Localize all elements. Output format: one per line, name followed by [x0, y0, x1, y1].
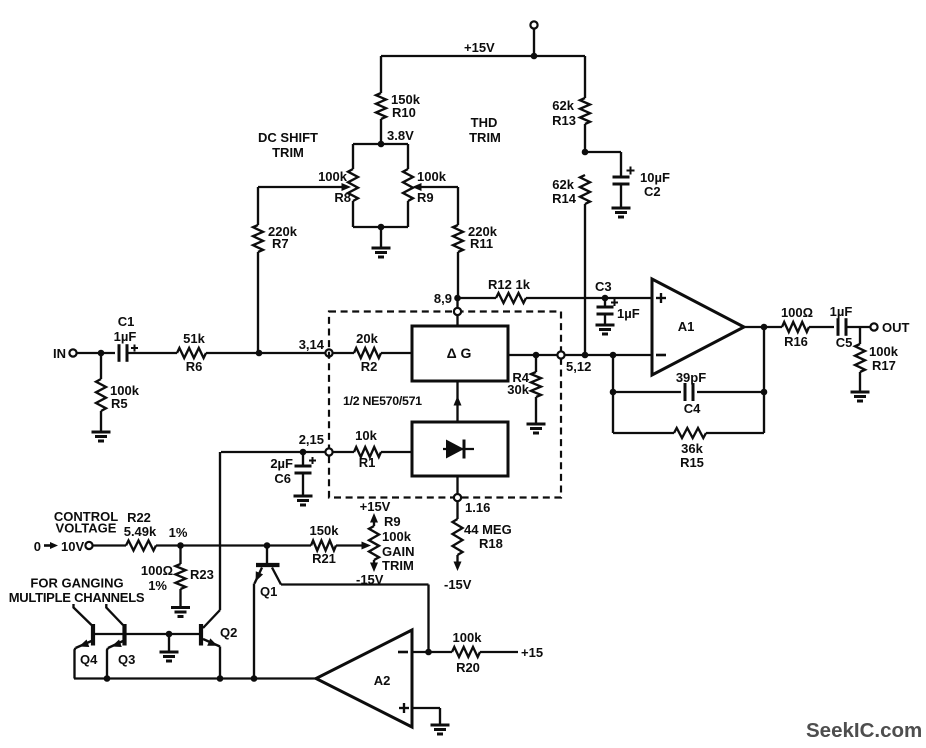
wire R1 to rectifier — [381, 451, 412, 453]
wire A2 plus input — [412, 708, 440, 725]
resistor R18 — [453, 519, 463, 555]
junction R5 tap — [98, 350, 105, 357]
wire trim loop right lower — [407, 201, 409, 227]
svg-text:1µF: 1µF — [114, 329, 137, 344]
node 3,14 — [299, 337, 333, 357]
junction C4 left — [610, 389, 617, 396]
svg-text:R7: R7 — [272, 236, 289, 251]
svg-text:100k: 100k — [382, 529, 412, 544]
R13 labels — [552, 98, 576, 128]
svg-text:GAIN: GAIN — [382, 544, 415, 559]
resistor R21 — [311, 541, 336, 551]
wire A2 output row — [74, 677, 316, 679]
svg-text:C6: C6 — [274, 471, 291, 486]
svg-text:MULTIPLE CHANNELS: MULTIPLE CHANNELS — [9, 590, 145, 605]
wire Q1 collector to A2 — [281, 585, 429, 653]
R9 labels — [417, 169, 447, 205]
svg-text:R21: R21 — [312, 551, 336, 566]
node 2,15 — [299, 432, 333, 456]
resistor R22 — [126, 541, 156, 551]
wire C4 row right — [697, 391, 764, 393]
resistor R14 — [580, 175, 590, 204]
R22 labels — [124, 510, 188, 540]
svg-text:C2: C2 — [644, 184, 661, 199]
Q1 label — [260, 584, 277, 599]
svg-text:SeekIC.com: SeekIC.com — [806, 719, 922, 742]
R21 labels — [310, 523, 340, 566]
svg-text:R1: R1 — [359, 455, 376, 470]
junction C3 tap — [602, 295, 609, 302]
R8 labels — [318, 169, 351, 205]
Q4 label — [80, 652, 98, 667]
svg-text:1.16: 1.16 — [465, 500, 490, 515]
junction R4 tap — [533, 352, 540, 359]
svg-text:8,9: 8,9 — [434, 291, 452, 306]
THD TRIM label — [469, 115, 501, 145]
junction R13/R14 — [582, 149, 589, 156]
resistor R15 — [674, 428, 706, 438]
capacitor C2 — [613, 167, 635, 185]
wire 2,15 left — [221, 451, 325, 453]
wire control to R22 — [93, 544, 126, 546]
R20 labels — [453, 630, 483, 675]
wire R20 to +15 — [480, 651, 518, 653]
wire rectifier bottom pin — [456, 476, 458, 494]
wire 2,15 down to Q2 — [219, 452, 221, 610]
wire R22 to R21 — [156, 544, 311, 546]
junction Q1 base tap — [264, 542, 271, 549]
ground below R17 — [851, 392, 870, 401]
resistor R1 — [354, 447, 381, 457]
node 3.8V label — [387, 128, 414, 143]
svg-text:R18: R18 — [479, 536, 503, 551]
svg-text:+15V: +15V — [360, 499, 391, 514]
ground below C2 — [612, 208, 631, 217]
capacitor C1 — [119, 344, 138, 362]
junction feedback tap — [610, 352, 617, 359]
1/2 NE570/571 label — [343, 394, 422, 408]
wire R12 to A1 plus — [526, 297, 652, 299]
capacitor C4 — [685, 383, 693, 401]
svg-text:5,12: 5,12 — [566, 359, 591, 374]
R16 labels — [781, 305, 813, 349]
svg-text:R15: R15 — [680, 455, 704, 470]
svg-text:62k: 62k — [552, 98, 574, 113]
junction A2 minus node — [425, 649, 432, 656]
wire Q1 emitter down — [253, 584, 255, 679]
wire delta-G output — [508, 354, 557, 356]
delta-G block U1 — [412, 326, 508, 381]
wire R14 down to minus row — [584, 204, 586, 355]
resistor R16 — [782, 322, 809, 332]
wire 5,12 to A1 minus — [565, 354, 652, 356]
svg-text:R17: R17 — [872, 358, 896, 373]
ground below trim loop — [372, 248, 391, 257]
svg-text:3.8V: 3.8V — [387, 128, 414, 143]
R14 labels — [552, 177, 577, 206]
wire C3 to ground — [604, 314, 606, 325]
ground below R4 — [527, 424, 546, 433]
svg-text:5.49k: 5.49k — [124, 524, 157, 539]
svg-text:R14: R14 — [552, 191, 577, 206]
svg-text:R5: R5 — [111, 396, 128, 411]
wire R2 to delta-G box — [381, 352, 412, 354]
node 1,16 — [454, 494, 490, 515]
wire 3,14 to R2 — [333, 352, 354, 354]
svg-text:+15: +15 — [521, 645, 543, 660]
wire R4 to ground — [535, 397, 537, 424]
svg-text:THD: THD — [471, 115, 498, 130]
wire C1 to R6 — [127, 352, 177, 354]
svg-text:1µF: 1µF — [617, 306, 640, 321]
potentiometer R9 gain trim — [369, 513, 379, 572]
wire base rail — [93, 633, 199, 635]
resistor R5 — [96, 379, 106, 411]
svg-text:100k: 100k — [417, 169, 447, 184]
ground below A2 plus — [431, 725, 450, 734]
R4 labels — [507, 370, 529, 397]
svg-text:1/2 NE570/571: 1/2 NE570/571 — [343, 394, 422, 408]
+15V label — [464, 40, 495, 55]
wire R6 to node 3,14 — [206, 352, 325, 354]
wire R7 to input row — [257, 252, 259, 353]
R8 wiper arrow — [258, 183, 351, 191]
wire R5 to ground — [100, 411, 102, 432]
wire output down — [763, 327, 765, 433]
svg-text:1%: 1% — [148, 578, 167, 593]
node 5,12 — [557, 351, 591, 374]
svg-text:62k: 62k — [552, 177, 574, 192]
svg-text:2,15: 2,15 — [299, 432, 324, 447]
wire Q1 base — [266, 546, 268, 564]
svg-text:TRIM: TRIM — [469, 130, 501, 145]
C5 labels — [830, 304, 853, 350]
wire R15 row right — [706, 432, 764, 434]
wire trim loop left upper — [352, 144, 354, 169]
junction R14 joins minus row — [582, 352, 589, 359]
svg-text:0: 0 — [34, 539, 41, 554]
-15V label below R18 — [444, 577, 472, 592]
resistor R2 — [354, 348, 381, 358]
svg-text:51k: 51k — [183, 331, 205, 346]
C1 labels — [114, 314, 137, 344]
svg-text:36k: 36k — [681, 441, 703, 456]
C2 labels — [640, 170, 670, 199]
svg-text:Q2: Q2 — [220, 625, 237, 640]
svg-text:R12 1k: R12 1k — [488, 277, 531, 292]
svg-text:R11: R11 — [470, 236, 493, 251]
R1 labels — [355, 428, 377, 470]
wire A1 output — [744, 326, 782, 328]
svg-text:C5: C5 — [836, 335, 853, 350]
Q2 label — [220, 625, 237, 640]
svg-text:100Ω: 100Ω — [141, 563, 173, 578]
R10 value label — [391, 92, 421, 120]
wire 8,9 to R12 — [458, 297, 497, 299]
svg-text:+15V: +15V — [464, 40, 495, 55]
junction top rail — [531, 53, 538, 60]
wire R13 to node — [584, 124, 586, 152]
wire trim loop top — [353, 143, 408, 145]
svg-text:1µF: 1µF — [830, 304, 853, 319]
wire node to C2 — [585, 152, 621, 177]
control input terminal — [85, 542, 92, 549]
svg-text:FOR GANGING: FOR GANGING — [30, 576, 123, 591]
capacitor C5 — [838, 318, 846, 336]
wire C4 row left — [613, 391, 681, 393]
junction Q2 emitter — [217, 675, 224, 682]
wire R17 to ground — [859, 372, 861, 392]
for ganging label — [9, 576, 145, 606]
R2 labels — [356, 331, 378, 374]
svg-text:C1: C1 — [118, 314, 135, 329]
R17 labels — [869, 344, 899, 373]
wire R11 to node 8,9 — [457, 252, 459, 295]
+15 label — [521, 645, 543, 660]
transistor Q2 — [201, 610, 220, 647]
junction node 8,9 top — [454, 295, 461, 302]
resistor R7 — [253, 225, 263, 252]
wire 2,15 to R1 — [333, 451, 354, 453]
svg-text:A1: A1 — [678, 319, 695, 334]
R23 labels — [141, 563, 214, 593]
svg-text:100Ω: 100Ω — [781, 305, 813, 320]
svg-text:C3: C3 — [595, 279, 612, 294]
svg-text:44 MEG: 44 MEG — [464, 522, 512, 537]
wire 1,16 to R18 — [456, 501, 458, 519]
svg-text:3,14: 3,14 — [299, 337, 325, 352]
capacitor C3 — [597, 298, 619, 314]
0 to 10V label — [34, 539, 85, 554]
R15 labels — [680, 441, 704, 470]
wire R21 to gain trim wiper — [336, 542, 371, 550]
wire Q2 emitter down — [219, 647, 221, 679]
wire trim loop left lower — [352, 201, 354, 227]
wire base ground stem — [168, 634, 170, 652]
+15V label gain trim — [360, 499, 391, 514]
ground below C6 — [294, 496, 313, 505]
svg-text:20k: 20k — [356, 331, 378, 346]
junction 3.8V node — [378, 141, 385, 148]
capacitor C6 — [295, 452, 317, 473]
rectifier block — [412, 422, 508, 476]
junction R7 tap — [256, 350, 263, 357]
wire delta-G top pin — [456, 295, 458, 326]
arrow rectifier to delta-G — [454, 396, 462, 406]
svg-text:R6: R6 — [186, 359, 203, 374]
svg-text:150k: 150k — [310, 523, 340, 538]
gain trim labels — [382, 514, 415, 573]
svg-text:R23: R23 — [190, 567, 214, 582]
R9 wiper arrow — [412, 183, 458, 191]
R5 labels — [110, 383, 140, 411]
svg-text:R9: R9 — [417, 190, 434, 205]
resistor R11 — [453, 225, 463, 252]
wire rail to R13 — [584, 56, 586, 98]
CONTROL VOLTAGE label — [54, 509, 118, 536]
op-amp A2 — [316, 630, 412, 727]
svg-text:A2: A2 — [374, 673, 391, 688]
junction Q1 emitter on rail — [251, 675, 258, 682]
arrow R18 to -15V — [454, 555, 462, 571]
wire C2 to ground — [620, 184, 622, 208]
R7 labels — [268, 224, 298, 251]
wire R9 wiper down to R11 — [457, 187, 459, 225]
resistor R20 — [452, 647, 480, 657]
wire C6 to ground — [302, 473, 304, 496]
wire R16 to C5 — [809, 326, 834, 328]
junction base rail ground — [166, 631, 173, 638]
R11 labels — [468, 224, 498, 251]
junction Q3 emitter — [104, 675, 111, 682]
svg-text:R2: R2 — [361, 359, 378, 374]
resistor R9 (DC shift) — [403, 169, 413, 201]
svg-text:10µF: 10µF — [640, 170, 670, 185]
svg-text:R10: R10 — [392, 105, 416, 120]
IN terminal — [53, 346, 77, 361]
ground below R5 — [92, 432, 111, 441]
C6 labels — [270, 456, 293, 486]
svg-text:VOLTAGE: VOLTAGE — [56, 521, 117, 536]
resistor R13 — [580, 98, 590, 124]
wire top rail — [381, 55, 585, 57]
transistor Q4 — [74, 604, 94, 679]
junction R23 tap — [177, 542, 184, 549]
svg-text:R13: R13 — [552, 113, 576, 128]
svg-text:TRIM: TRIM — [382, 558, 414, 573]
junction C6 tap — [300, 449, 307, 456]
ground below R23 — [171, 608, 190, 617]
ground below base rail — [160, 652, 179, 661]
svg-text:2µF: 2µF — [270, 456, 293, 471]
svg-text:10k: 10k — [355, 428, 377, 443]
wire rail to R10 — [380, 56, 382, 93]
node 8,9 — [434, 291, 461, 315]
svg-text:Q4: Q4 — [80, 652, 98, 667]
wire minus row down — [612, 355, 614, 433]
svg-text:TRIM: TRIM — [272, 145, 304, 160]
svg-text:IN: IN — [53, 346, 66, 361]
svg-text:100k: 100k — [453, 630, 483, 645]
wire trim loop bottom — [353, 226, 408, 228]
ground below C3 — [596, 325, 615, 334]
wire IN to C1 — [77, 352, 115, 354]
svg-text:OUT: OUT — [882, 320, 910, 335]
svg-text:R8: R8 — [334, 190, 351, 205]
svg-text:Q1: Q1 — [260, 584, 277, 599]
resistor R17 — [855, 344, 865, 372]
svg-text:100k: 100k — [318, 169, 348, 184]
op-amp A1 — [652, 279, 744, 375]
resistor R6 — [177, 348, 206, 358]
diode D1 — [443, 440, 474, 459]
SeekIC.com watermark — [806, 719, 922, 742]
svg-text:10V: 10V — [61, 539, 84, 554]
DC SHIFT TRIM label — [258, 130, 318, 160]
transistor Q3 — [106, 604, 124, 679]
resistor R12 — [496, 293, 526, 303]
wire C5 to OUT — [846, 326, 870, 328]
+15V supply terminal — [530, 21, 537, 56]
svg-text:R16: R16 — [784, 334, 808, 349]
wire to R5 — [100, 353, 102, 379]
OUT terminal — [870, 320, 909, 335]
C3 labels — [595, 279, 640, 321]
C4 labels — [676, 370, 706, 416]
Q3 label — [118, 652, 135, 667]
wire trim loop right upper — [407, 144, 409, 169]
svg-text:30k: 30k — [507, 382, 529, 397]
svg-text:R22: R22 — [127, 510, 151, 525]
resistor R23 — [176, 546, 186, 590]
svg-text:C4: C4 — [684, 401, 701, 416]
junction trim loop bottom — [378, 224, 385, 231]
transistor Q1 — [255, 565, 282, 585]
svg-text:1%: 1% — [169, 525, 188, 540]
dashed block 1/2 NE570/571 — [329, 312, 561, 498]
wire A2 minus input — [412, 651, 452, 653]
svg-text:100k: 100k — [869, 344, 899, 359]
wire R17 tap — [859, 327, 861, 344]
junction feedback output tap — [761, 324, 768, 331]
wire to ground — [380, 227, 382, 248]
R12 label — [488, 277, 531, 292]
resistor R4 — [531, 355, 541, 397]
-15V label gain trim — [356, 572, 384, 587]
svg-text:R9: R9 — [384, 514, 401, 529]
svg-text:39pF: 39pF — [676, 370, 706, 385]
svg-text:R20: R20 — [456, 660, 480, 675]
wire R8 wiper down to R7 — [257, 187, 259, 225]
wire R15 row left — [613, 432, 674, 434]
R6 labels — [183, 331, 205, 374]
svg-text:Q3: Q3 — [118, 652, 135, 667]
svg-text:Δ G: Δ G — [447, 345, 472, 361]
wire R10 to trim loop — [380, 119, 382, 144]
svg-text:-15V: -15V — [444, 577, 472, 592]
resistor R10 — [376, 93, 386, 119]
wire R23 to ground — [179, 589, 181, 608]
resistor R8 — [348, 169, 358, 201]
R18 labels — [464, 522, 512, 551]
wire delta-G to rectifier pin — [456, 381, 458, 422]
svg-text:DC SHIFT: DC SHIFT — [258, 130, 318, 145]
junction C4 right — [761, 389, 768, 396]
